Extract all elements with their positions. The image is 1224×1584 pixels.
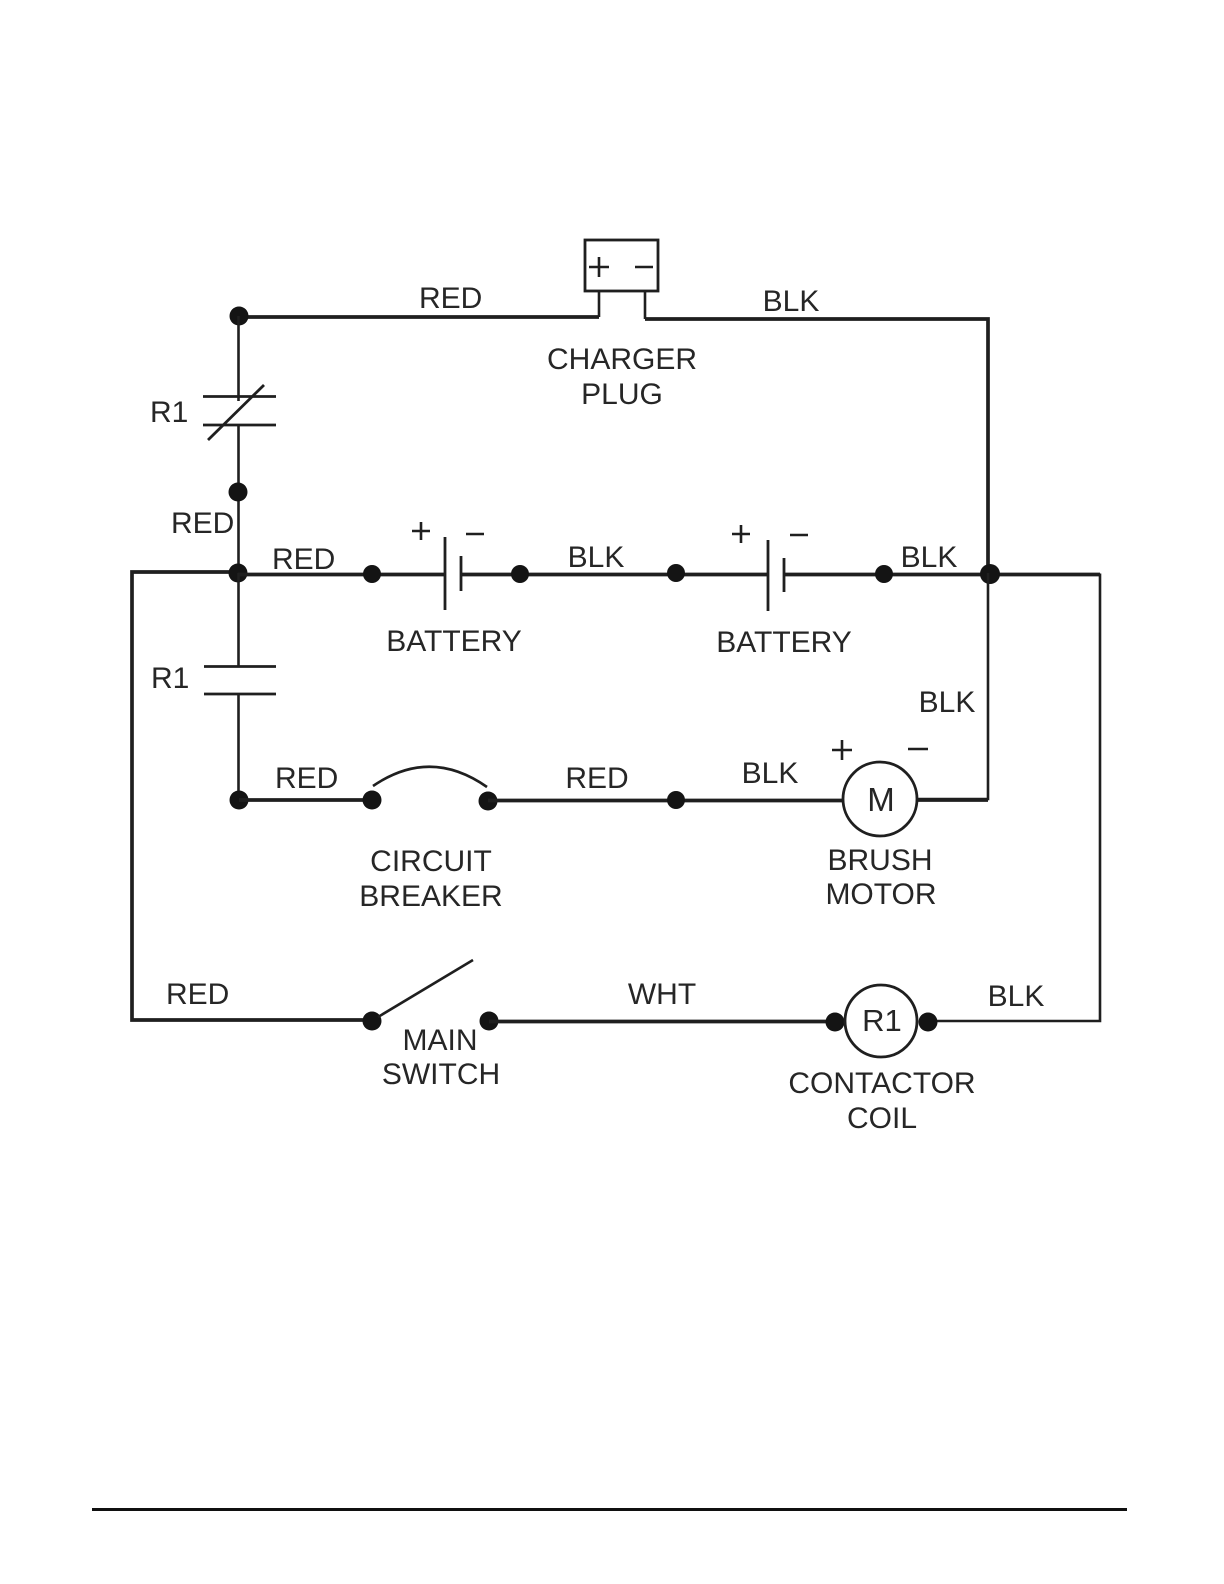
wire battery row segment 3 [784,573,1100,577]
node battery-row junction [229,564,248,583]
wire battery row segment 1 [238,573,445,577]
wire mid vertical to motor row [916,573,988,799]
svg-text:BLK: BLK [988,980,1045,1013]
wire switch to contactor [489,1020,835,1024]
svg-text:R1: R1 [862,1003,902,1038]
svg-text:M: M [867,781,895,818]
switch S1 blade [378,960,473,1017]
wire CB row segment 2 [488,799,843,803]
node motor row dot [667,791,685,809]
svg-text:BATTERY: BATTERY [716,626,852,659]
node B1 left [363,565,381,583]
contactor coil R1 [845,985,917,1057]
node main BLK junction [980,564,1000,584]
label CHARGER PLUG [547,343,697,411]
wire right rail to contactor [928,574,1100,1022]
wire CB row segment 1 [239,798,372,802]
svg-text:WHT: WHT [628,978,696,1011]
svg-text:R1: R1 [150,396,188,429]
charger plug P1 [585,240,658,319]
svg-text:BLK: BLK [919,686,976,719]
motor M1 [832,740,928,836]
label CIRCUIT BREAKER [359,845,502,913]
svg-text:RED: RED [419,282,482,315]
node contactor right [919,1013,938,1032]
node switch terminal left [363,1012,382,1031]
battery B2 [732,525,808,611]
node CB row left [230,791,249,810]
svg-text:CONTACTOR: CONTACTOR [788,1067,975,1100]
wire motor to mid rail [917,798,988,802]
footer rule [92,1508,1127,1511]
wire BLK top with right drop [645,319,988,573]
svg-text:BATTERY: BATTERY [386,625,522,658]
node CB terminal right [479,792,498,811]
label CONTACTOR COIL [788,1067,975,1135]
svg-text:SWITCH: SWITCH [382,1058,500,1091]
wire junction to power contact [237,573,240,666]
svg-text:RED: RED [166,978,229,1011]
wire left vertical upper [237,316,240,401]
svg-text:BLK: BLK [763,285,820,318]
wire battery row segment 2 [461,573,768,577]
svg-text:MOTOR: MOTOR [825,878,936,911]
node RED marker [229,483,248,502]
node B2 right [875,565,893,583]
svg-text:MAIN: MAIN [403,1024,478,1057]
node B1 right [511,565,529,583]
svg-text:RED: RED [275,762,338,795]
svg-text:COIL: COIL [847,1102,917,1135]
node B2 left [667,564,685,582]
svg-text:BLK: BLK [568,541,625,574]
node contactor left [826,1013,845,1032]
svg-text:RED: RED [272,543,335,576]
svg-text:RED: RED [565,762,628,795]
node top-left junction [230,307,249,326]
label BRUSH MOTOR [825,844,936,911]
wire left vertical lower [237,694,240,800]
node switch terminal right [480,1012,499,1031]
contact R1 normally-closed [203,385,276,440]
node CB terminal left [363,791,382,810]
wire left rail [132,572,372,1020]
wire left vertical mid [237,425,240,573]
svg-text:BRUSH: BRUSH [827,844,932,877]
svg-text:BLK: BLK [742,757,799,790]
svg-text:PLUG: PLUG [581,378,663,411]
contact R1 power (left) [204,667,276,695]
svg-text:BLK: BLK [901,541,958,574]
wire RED top [239,315,599,319]
svg-text:R1: R1 [151,662,189,695]
svg-text:CHARGER: CHARGER [547,343,697,376]
svg-text:RED: RED [171,507,234,540]
svg-text:BREAKER: BREAKER [359,880,502,913]
label MAIN SWITCH [382,1024,500,1091]
circuit breaker CB1 arc [373,767,487,787]
svg-text:CIRCUIT: CIRCUIT [370,845,492,878]
battery B1 [412,522,484,610]
